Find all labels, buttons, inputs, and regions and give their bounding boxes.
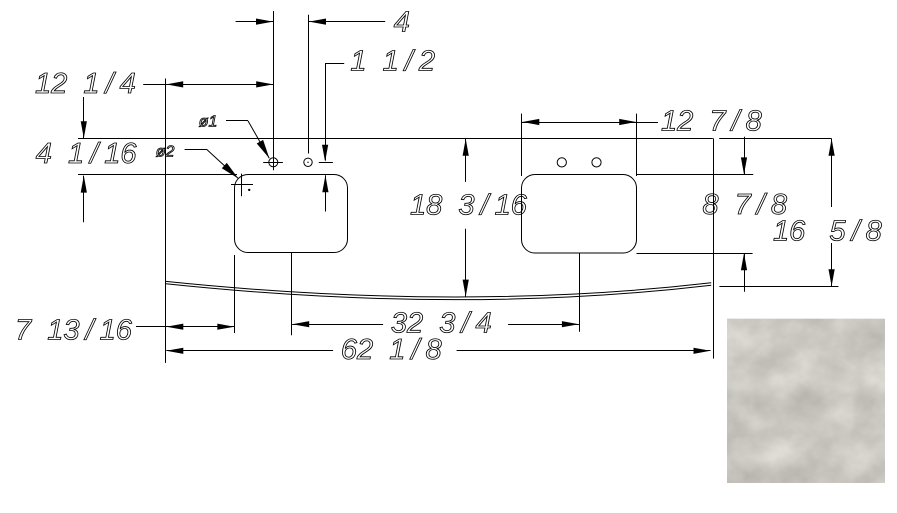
svg-text:7 13/16: 7 13/16 xyxy=(15,315,133,347)
svg-text:ø1: ø1 xyxy=(199,113,218,130)
svg-text:1 1/2: 1 1/2 xyxy=(350,46,435,78)
svg-text:4: 4 xyxy=(394,6,410,38)
svg-text:12 7/8: 12 7/8 xyxy=(661,106,762,138)
svg-text:ø2: ø2 xyxy=(156,144,175,161)
svg-text:62 1/8: 62 1/8 xyxy=(341,334,442,366)
svg-text:16 5/8: 16 5/8 xyxy=(773,215,882,247)
svg-text:12 1/4: 12 1/4 xyxy=(35,68,136,100)
svg-text:18 3/16: 18 3/16 xyxy=(410,189,528,221)
